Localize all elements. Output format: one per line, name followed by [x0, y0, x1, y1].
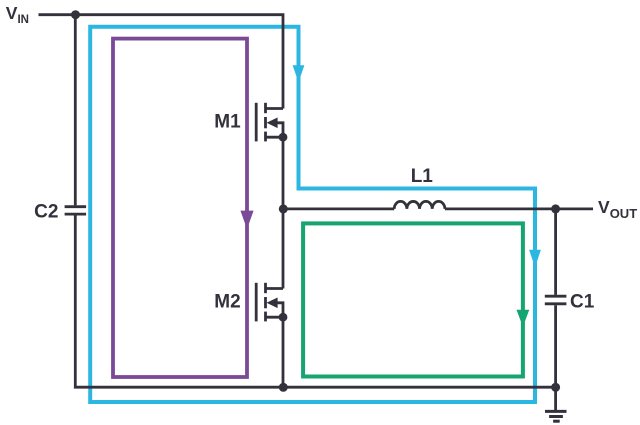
- wire: switch node to L1: [283, 207, 394, 210]
- mosfet M1: [256, 103, 283, 142]
- svg-text:C1: C1: [570, 292, 595, 313]
- wire: VOUT node down to C1 top plate: [554, 209, 557, 295]
- junction: ground node dot: [551, 383, 560, 392]
- inductor L1: [394, 201, 445, 208]
- wire: VIN top rail to M1 drain: [39, 15, 284, 109]
- junction: M1 source dot: [279, 133, 288, 142]
- wire: left rail VIN to C2 top plate: [74, 15, 77, 206]
- junction: M2 source dot: [279, 313, 288, 322]
- junction: VIN node dot: [71, 10, 80, 19]
- mosfet M2: [256, 283, 283, 322]
- loop: green output loop: [303, 223, 523, 376]
- wire: C2 bottom plate to bottom rail and bottom rail to ground node: [75, 216, 555, 388]
- junction: M2 source / bottom rail dot: [279, 383, 288, 392]
- arrow: green loop direction (down): [517, 310, 530, 327]
- svg-text:C2: C2: [34, 202, 58, 223]
- arrow: cyan loop direction top (down): [293, 65, 305, 82]
- svg-text:M1: M1: [214, 112, 241, 133]
- capacitor C2: [65, 207, 87, 214]
- junction: VOUT node dot: [551, 204, 560, 213]
- svg-text:M2: M2: [214, 292, 240, 313]
- capacitor C1: [545, 296, 567, 304]
- ground: [545, 387, 567, 421]
- wire: M2 source to bottom rail: [282, 317, 285, 387]
- wire: M1 source to M2 drain: [282, 137, 285, 288]
- arrow: purple loop current direction (down): [240, 211, 253, 229]
- arrow: cyan loop direction right (down): [529, 250, 541, 267]
- wire: L1 to VOUT: [445, 207, 593, 210]
- junction: switch node dot: [279, 204, 288, 213]
- svg-text:VIN: VIN: [6, 3, 29, 26]
- wire: C1 bottom plate to ground node: [554, 305, 557, 387]
- svg-text:L1: L1: [411, 166, 434, 187]
- loop: cyan hot loop: [90, 27, 535, 402]
- loop: purple input capacitor loop: [113, 39, 247, 377]
- svg-text:VOUT: VOUT: [598, 197, 637, 221]
